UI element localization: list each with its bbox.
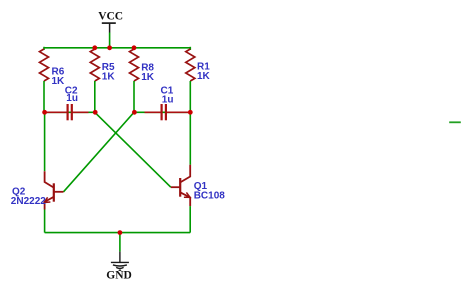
transistor Q1 <box>171 165 190 206</box>
svg-text:GND: GND <box>106 270 132 282</box>
svg-text:1K: 1K <box>141 72 155 83</box>
junction dot: top rail / VCC <box>107 45 112 50</box>
junction dot: node B (R5/C2/Q1 base) <box>93 110 98 115</box>
svg-text:BC108: BC108 <box>194 191 226 202</box>
junction dot: node A (R6/C2/Q2 collector) <box>42 110 47 115</box>
resistor R5 <box>90 49 99 81</box>
wire: stray segment at right <box>449 121 461 123</box>
wire: node A horizontal (R6/C2 row) <box>44 111 95 113</box>
wire: R1 bottom lead <box>189 81 191 112</box>
wire: cross-couple R8 node to Q2 base <box>64 112 135 192</box>
svg-text:1K: 1K <box>102 71 116 82</box>
capacitor C2 <box>45 104 89 120</box>
transistor Q1 emitter arrow <box>184 192 190 197</box>
transistor Q2 emitter arrow <box>44 197 50 202</box>
transistor Q2 <box>45 171 64 209</box>
junction dot: top rail / R8 <box>132 45 137 50</box>
wire: top supply rail <box>44 47 190 50</box>
wire: Q1 emitter down <box>189 206 191 233</box>
junction dot: node D (R1/C1/Q1 collector) <box>188 110 193 115</box>
wire: R5 bottom lead <box>94 81 96 112</box>
junction dot: emitter rail / GND <box>118 230 123 235</box>
wire: Q2 emitter down <box>44 210 46 233</box>
junction dot: node C (R8/C1/Q2 base) <box>132 110 137 115</box>
svg-text:1K: 1K <box>197 71 211 82</box>
junction dot: top rail / R5 <box>92 45 97 50</box>
svg-text:2N2222: 2N2222 <box>11 196 46 207</box>
svg-text:1u: 1u <box>162 94 174 105</box>
wire: Q2 collector to node A <box>44 112 46 171</box>
wire: R6 bottom lead <box>43 81 45 112</box>
power symbol VCC <box>102 23 116 48</box>
ground symbol GND <box>111 252 129 271</box>
capacitor C1 <box>145 104 190 120</box>
wire: ground stub <box>119 233 121 252</box>
svg-text:VCC: VCC <box>98 11 123 23</box>
wire: cross-couple R5 node to Q1 base <box>95 112 171 187</box>
resistor R8 <box>130 49 139 81</box>
svg-text:1u: 1u <box>66 93 78 104</box>
wire: Q1 collector to R1 node <box>189 112 191 165</box>
resistor R1 <box>186 49 195 81</box>
wire: node C horizontal (R8/C1 row) <box>134 111 190 113</box>
wire: bottom emitter rail <box>45 232 191 234</box>
svg-text:1K: 1K <box>52 76 66 87</box>
resistor R6 <box>40 49 49 81</box>
wire: R8 bottom lead <box>133 81 135 112</box>
